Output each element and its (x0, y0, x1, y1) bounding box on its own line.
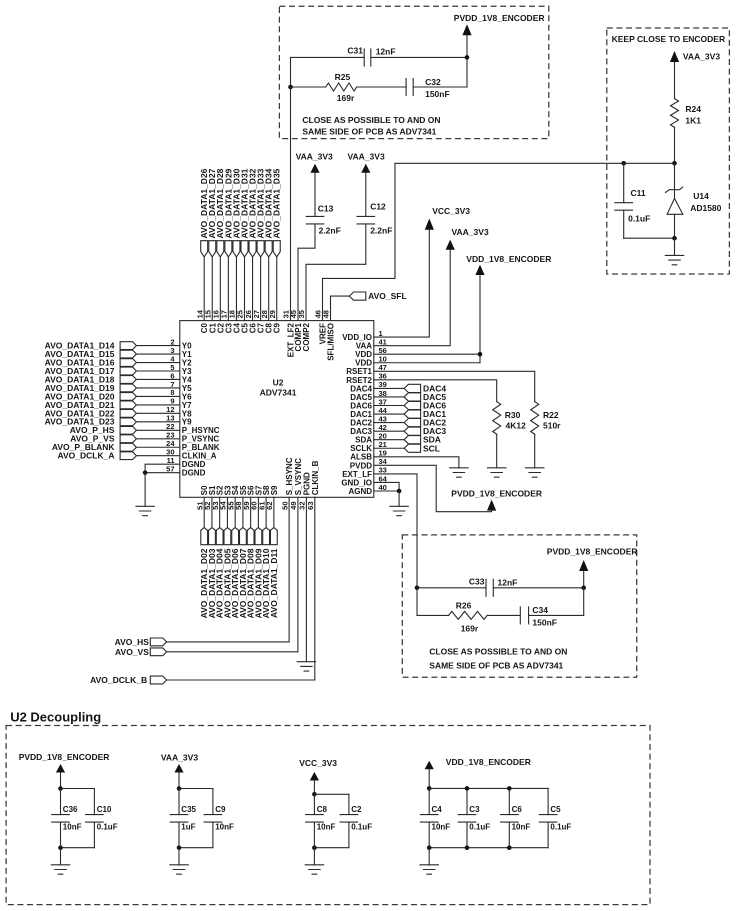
svg-text:C13: C13 (318, 204, 334, 214)
ground (R30) (496, 434, 498, 468)
resistor R24 1K1 (671, 99, 679, 128)
wire top rail (429, 787, 548, 789)
svg-text:10nF: 10nF (63, 823, 82, 832)
junction top rail (58, 786, 63, 791)
svg-text:169r: 169r (337, 93, 355, 103)
wire (136, 370, 179, 372)
wire EXT_LF2 net down to pin 31 (290, 87, 292, 321)
junction top rail (312, 792, 317, 797)
svg-text:COMP2: COMP2 (302, 322, 311, 351)
capacitor C33 12nF (486, 579, 493, 596)
svg-text:C3: C3 (469, 805, 480, 814)
junction (465, 786, 470, 791)
svg-text:510r: 510r (543, 421, 561, 431)
wire R24 to reference node (674, 127, 676, 163)
junction AGND (397, 489, 402, 494)
ground (reference) (674, 238, 676, 255)
svg-text:150nF: 150nF (425, 89, 450, 99)
svg-text:C31: C31 (347, 46, 363, 56)
svg-text:VDD_1V8_ENCODER: VDD_1V8_ENCODER (446, 757, 531, 767)
wire R26 to C34 (487, 614, 520, 616)
wire (273, 497, 275, 527)
junction node at PVDD rail (465, 55, 470, 60)
wire (136, 455, 179, 457)
svg-text:AVO_SFL: AVO_SFL (368, 291, 407, 301)
svg-text:SCL: SCL (423, 443, 440, 453)
svg-text:VCC_3V3: VCC_3V3 (299, 758, 337, 768)
wire bottom rail (429, 847, 548, 849)
svg-text:C10: C10 (97, 805, 112, 814)
wire PVDD to PVDD_1V8_ENCODER (374, 465, 492, 511)
svg-text:S_HSYNC: S_HSYNC (285, 457, 294, 495)
wire top branch C31 (291, 56, 365, 58)
svg-text:CLOSE AS POSSIBLE TO AND ON: CLOSE AS POSSIBLE TO AND ON (302, 115, 440, 125)
capacitor C4 10nF (428, 788, 430, 814)
power symbol PVDD_1V8_ENCODER (decoupling) (56, 764, 65, 773)
dashed note box (bottom, C33/R26/C34 snubber) (402, 535, 636, 677)
svg-text:C6: C6 (512, 805, 523, 814)
svg-text:29: 29 (268, 310, 277, 318)
wire (260, 257, 262, 321)
svg-text:C8: C8 (317, 805, 328, 814)
ground (PGND) (305, 497, 307, 661)
svg-text:C36: C36 (63, 805, 78, 814)
net tag SCL (374, 447, 404, 449)
capacitor C6 10nF (508, 788, 510, 814)
wire (235, 257, 237, 321)
wire DGND pin 57 (145, 472, 180, 474)
wire VAA to VAA_3V3 (374, 250, 450, 346)
diode U14 AD1580 (674, 163, 676, 198)
wire (136, 429, 179, 431)
ground (VCC_3V3 decoupling) (313, 848, 315, 865)
svg-text:12nF: 12nF (498, 577, 518, 587)
power symbol VCC_3V3 (425, 219, 434, 230)
svg-text:VDD_1V8_ENCODER: VDD_1V8_ENCODER (466, 254, 551, 264)
op-amp U2 ADV7341 encoder IC body (180, 321, 374, 498)
wire (226, 497, 228, 527)
svg-text:0.1uF: 0.1uF (97, 823, 118, 832)
svg-text:R24: R24 (685, 104, 701, 114)
svg-text:12nF: 12nF (376, 47, 396, 57)
wire top rail (61, 788, 95, 790)
svg-text:63: 63 (306, 502, 315, 510)
net tag DAC1 (374, 413, 404, 415)
junction left node (415, 586, 420, 591)
wire VREF horizontal run (395, 162, 675, 164)
svg-text:AGND: AGND (348, 487, 372, 496)
svg-text:AVO_DCLK_B: AVO_DCLK_B (90, 675, 147, 685)
wire ALSB to ground (374, 457, 459, 468)
svg-text:10nF: 10nF (317, 823, 336, 832)
junction node at EXT_LF2 branch (288, 85, 293, 90)
junction DGND (143, 470, 148, 475)
wire (227, 257, 229, 321)
svg-text:C12: C12 (370, 201, 386, 211)
wire (136, 421, 179, 423)
svg-text:PVDD_1V8_ENCODER: PVDD_1V8_ENCODER (19, 752, 110, 762)
wire top rail (314, 793, 349, 795)
svg-text:2.2nF: 2.2nF (370, 225, 392, 235)
wire (203, 497, 205, 527)
svg-text:U2 Decoupling: U2 Decoupling (10, 710, 101, 725)
capacitor C8 10nF (313, 794, 315, 814)
svg-text:150nF: 150nF (532, 617, 557, 627)
junction right node (581, 586, 586, 591)
svg-text:SFL/MISO: SFL/MISO (327, 323, 336, 361)
junction VDD rail (478, 352, 483, 357)
svg-text:C34: C34 (532, 605, 548, 615)
capacitor C13 2.2nF (306, 216, 324, 224)
wire bottom branch R25-C32 (290, 57, 292, 87)
wire S_VSYNC to AVO_VS (167, 497, 298, 652)
capacitor C31 12nF (364, 49, 371, 66)
svg-text:AVO_DATA1_D35: AVO_DATA1_D35 (272, 168, 282, 238)
wire (136, 404, 179, 406)
svg-text:PVDD_1V8_ENCODER: PVDD_1V8_ENCODER (547, 547, 638, 557)
svg-text:VAA_3V3: VAA_3V3 (296, 151, 333, 161)
wire bottom rail (61, 847, 95, 849)
svg-text:R30: R30 (505, 410, 521, 420)
svg-text:AVO_VS: AVO_VS (115, 647, 149, 657)
dashed note box (top, C31/R25/C32 snubber) (279, 6, 548, 138)
wire (219, 257, 221, 321)
svg-text:C35: C35 (181, 805, 196, 814)
net tag DAC4 (374, 387, 404, 389)
svg-text:U14: U14 (693, 191, 709, 201)
wire C34 to right node (529, 614, 584, 616)
svg-text:48: 48 (322, 310, 331, 318)
svg-text:0.1uF: 0.1uF (550, 823, 571, 832)
svg-text:40: 40 (379, 483, 387, 492)
svg-text:0.1uF: 0.1uF (469, 823, 490, 832)
dashed note box KEEP CLOSE TO ENCODER (607, 28, 730, 274)
ground (AGND) (398, 491, 400, 506)
ground (VAA_3V3 decoupling) (178, 848, 180, 865)
svg-text:SAME SIDE OF PCB AS ADV7341: SAME SIDE OF PCB AS ADV7341 (429, 660, 563, 670)
wire (244, 257, 246, 321)
capacitor C35 1uF (178, 789, 180, 815)
wire (136, 362, 179, 364)
wire C32 to output node (413, 86, 467, 88)
svg-text:50: 50 (280, 502, 289, 510)
resistor R25 169r (326, 83, 357, 91)
wire (242, 497, 244, 527)
svg-text:R25: R25 (335, 72, 351, 82)
power symbol VDD_1V8_ENCODER (475, 265, 484, 275)
power symbol PVDD_1V8_ENCODER (top box) (466, 35, 468, 57)
capacitor C32 150nF (406, 79, 413, 96)
svg-text:10nF: 10nF (432, 823, 451, 832)
resistor R22 510r (531, 402, 539, 435)
svg-text:C11: C11 (631, 188, 646, 198)
wire S_HSYNC to AVO_HS (167, 497, 290, 642)
wire bottom branch R26-C34 (416, 588, 418, 616)
power symbol VAA_3V3 (decoupling) (174, 764, 183, 773)
svg-text:S9: S9 (270, 485, 279, 495)
power symbol VAA_3V3 (C12) (365, 173, 367, 217)
resistor R26 169r (449, 611, 488, 619)
resistor R30 4K12 (493, 402, 501, 435)
net tag AVO_SFL (331, 296, 350, 321)
svg-text:10nF: 10nF (512, 823, 531, 832)
wire bottom rail (179, 847, 213, 849)
svg-text:1K1: 1K1 (685, 116, 701, 126)
wire bottom rail (314, 847, 349, 849)
wire C13 to COMP1 pin 45 (298, 224, 315, 321)
svg-text:C9: C9 (273, 322, 282, 333)
wire (250, 497, 252, 527)
svg-text:SAME SIDE OF PCB AS ADV7341: SAME SIDE OF PCB AS ADV7341 (302, 126, 436, 136)
svg-text:CLKIN_B: CLKIN_B (311, 460, 320, 495)
ground (ALSB) (450, 468, 468, 477)
wire (136, 345, 179, 347)
junction top rail (177, 786, 182, 791)
svg-text:VAA_3V3: VAA_3V3 (161, 753, 198, 763)
wire (234, 497, 236, 527)
wire (136, 387, 179, 389)
power symbol VAA_3V3 (reference) (674, 62, 676, 99)
wire C12 to COMP2 pin 35 (306, 224, 366, 321)
svg-text:C5: C5 (550, 805, 561, 814)
ground (VDD_1V8_ENCODER decoupling) (428, 848, 430, 865)
power symbol PVDD_1V8_ENCODER (PVDD pin) (487, 500, 496, 511)
svg-text:VCC_3V3: VCC_3V3 (432, 206, 470, 216)
svg-text:AVO_DCLK_A: AVO_DCLK_A (58, 451, 115, 461)
wire (211, 497, 213, 527)
wire (136, 446, 179, 448)
net tag DAC5 (374, 396, 404, 398)
svg-text:R22: R22 (543, 410, 559, 420)
wire AGND (374, 490, 399, 492)
wire (211, 257, 213, 321)
wire EXT_LF to filter network (374, 474, 417, 588)
wire (203, 257, 205, 321)
svg-text:VAA_3V3: VAA_3V3 (683, 52, 720, 62)
wire (257, 497, 259, 527)
svg-text:DGND: DGND (182, 469, 206, 478)
wire (136, 378, 179, 380)
dashed section box U2 Decoupling (6, 726, 650, 905)
junction at U14 top (672, 161, 677, 166)
capacitor C9 10nF (212, 789, 214, 815)
svg-text:VAA_3V3: VAA_3V3 (452, 227, 489, 237)
svg-text:2.2nF: 2.2nF (319, 225, 341, 235)
svg-text:PVDD_1V8_ENCODER: PVDD_1V8_ENCODER (454, 13, 545, 23)
svg-text:10nF: 10nF (215, 823, 234, 832)
capacitor C2 0.1uF (348, 794, 350, 814)
wire RSET2 to R30 (374, 380, 497, 402)
power symbol VDD_1V8_ENCODER (decoupling) (425, 761, 434, 770)
svg-text:U2: U2 (273, 378, 284, 388)
ground DGND (144, 473, 146, 507)
svg-text:C33: C33 (469, 576, 485, 586)
wire (268, 257, 270, 321)
wire (276, 257, 278, 321)
capacitor C12 2.2nF (357, 216, 375, 224)
svg-text:PVDD_1V8_ENCODER: PVDD_1V8_ENCODER (451, 489, 542, 499)
net tag DAC6 (374, 405, 404, 407)
svg-text:C4: C4 (432, 805, 443, 814)
wire (265, 497, 267, 527)
wire (136, 412, 179, 414)
svg-text:R26: R26 (456, 600, 472, 610)
wire VDD pins to VDD_1V8_ENCODER (374, 353, 480, 355)
wire VDD_IO to VCC_3V3 (374, 230, 430, 337)
svg-text:ADV7341: ADV7341 (260, 388, 297, 398)
junction (507, 786, 512, 791)
wire bottom node (624, 237, 675, 239)
svg-text:AVO_HS: AVO_HS (115, 637, 150, 647)
wire CLKIN_B to AVO_DCLK_B (167, 497, 315, 680)
ground (R22) (534, 434, 536, 468)
svg-text:CLOSE AS POSSIBLE TO AND ON: CLOSE AS POSSIBLE TO AND ON (429, 647, 567, 657)
svg-text:C9: C9 (215, 805, 226, 814)
net tag DAC2 (374, 422, 404, 424)
junction top rail (427, 786, 432, 791)
wire (136, 438, 179, 440)
wire top branch C33 (417, 587, 486, 589)
svg-text:4K12: 4K12 (506, 421, 527, 431)
capacitor C36 10nF (60, 789, 62, 815)
svg-text:C2: C2 (351, 805, 362, 814)
power symbol VAA_3V3 (C13) (314, 173, 316, 217)
wire (136, 353, 179, 355)
wire (252, 257, 254, 321)
svg-text:62: 62 (265, 502, 274, 510)
net tag DAC3 (374, 430, 404, 432)
wire top rail (179, 788, 213, 790)
capacitor C10 0.1uF (93, 789, 95, 815)
wire DGND pin 11 (145, 464, 180, 472)
wire RSET1 to R22 (374, 371, 535, 401)
svg-text:1uF: 1uF (181, 823, 195, 832)
svg-text:KEEP CLOSE TO ENCODER: KEEP CLOSE TO ENCODER (612, 34, 726, 44)
capacitor C5 0.1uF (547, 788, 549, 814)
wire (219, 497, 221, 527)
svg-text:0.1uF: 0.1uF (628, 214, 650, 224)
power symbol PVDD_1V8_ENCODER (bottom box) (583, 571, 585, 588)
power symbol VAA_3V3 (VAA pin) (446, 240, 455, 250)
svg-text:VAA_3V3: VAA_3V3 (348, 151, 385, 161)
wire R25 to C32 (357, 86, 406, 88)
power symbol VCC_3V3 (decoupling) (310, 772, 319, 781)
svg-text:35: 35 (297, 310, 306, 318)
wire VREF pin 46 to reference node (323, 163, 396, 320)
wire GND_IO (374, 482, 399, 491)
svg-text:AD1580: AD1580 (690, 203, 721, 213)
junction at C11 top (621, 161, 626, 166)
junction at U14 bottom (672, 236, 677, 241)
wire (136, 395, 179, 397)
svg-text:AVO_DATA1_D11: AVO_DATA1_D11 (269, 548, 279, 618)
capacitor C11 0.1uF (623, 163, 625, 202)
svg-text:0.1uF: 0.1uF (351, 823, 372, 832)
svg-text:169r: 169r (461, 624, 479, 634)
svg-text:C32: C32 (425, 77, 441, 87)
capacitor C34 150nF (520, 607, 528, 624)
ground (PVDD_1V8_ENCODER decoupling) (60, 848, 62, 865)
net tag SDA (374, 439, 404, 441)
capacitor C3 0.1uF (466, 788, 468, 814)
